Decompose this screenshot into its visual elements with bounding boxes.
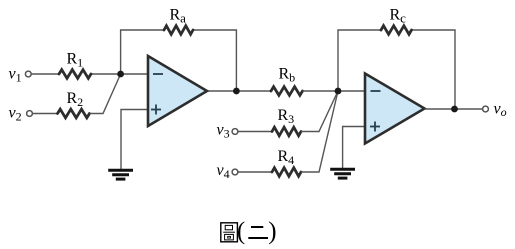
wire v3 to R3 [238, 131, 272, 133]
resistor Rb [271, 87, 303, 96]
wire U1 output to Rb [207, 90, 271, 92]
wire v4 to R4 [238, 171, 272, 173]
terminal v1 [25, 71, 31, 77]
wire U2 noninverting input to ground [343, 127, 365, 169]
terminal v3 [232, 129, 238, 135]
wire v2 to R2 [33, 113, 58, 115]
terminal v4 [232, 169, 238, 175]
op-amp U2 [365, 74, 425, 144]
resistor R4 [272, 168, 301, 177]
svg-text:(: ( [237, 218, 245, 245]
wire Rb to U2 inverting input [303, 90, 366, 92]
svg-text:): ) [268, 218, 276, 245]
node B (U1 output / Ra / Rb junction) [233, 88, 240, 95]
wire v1 to R1 and R1 to node A (inverting input line of U1) [31, 73, 148, 75]
op-amp U1 [148, 56, 207, 126]
wire U1 noninverting input to ground [121, 110, 148, 170]
wire Rc feedback loop (node C up, across top, down to output node D) [338, 30, 455, 109]
wire R3 lead and diagonal up to node C [301, 91, 338, 132]
caption figure character tu (圖) [221, 223, 238, 242]
terminal v2 [27, 111, 33, 117]
wire U2 output to vo terminal [425, 108, 483, 110]
terminal vo [483, 106, 489, 112]
resistor R3 [272, 127, 301, 136]
resistor Rc [381, 26, 412, 35]
ground (U1 noninverting input) [108, 170, 133, 179]
ground (U2 noninverting input) [330, 169, 355, 178]
node D (U2 output / Rc junction) [451, 106, 458, 113]
wire R4 lead and diagonal up to node C [301, 91, 338, 172]
wire R2 lead and diagonal up to node A [90, 74, 121, 114]
node C (junction of Rb, R3, R4, Rc, U2 inverting input) [335, 88, 342, 95]
caption character er (二) [248, 227, 268, 238]
resistor Ra [164, 26, 193, 35]
node A (junction of R1, R2, Ra, U1 inverting input) [117, 71, 124, 78]
resistor R2 [58, 109, 90, 118]
wire Ra feedback loop (node A up, across top, down to node B) [121, 30, 237, 91]
resistor R1 [59, 70, 91, 79]
